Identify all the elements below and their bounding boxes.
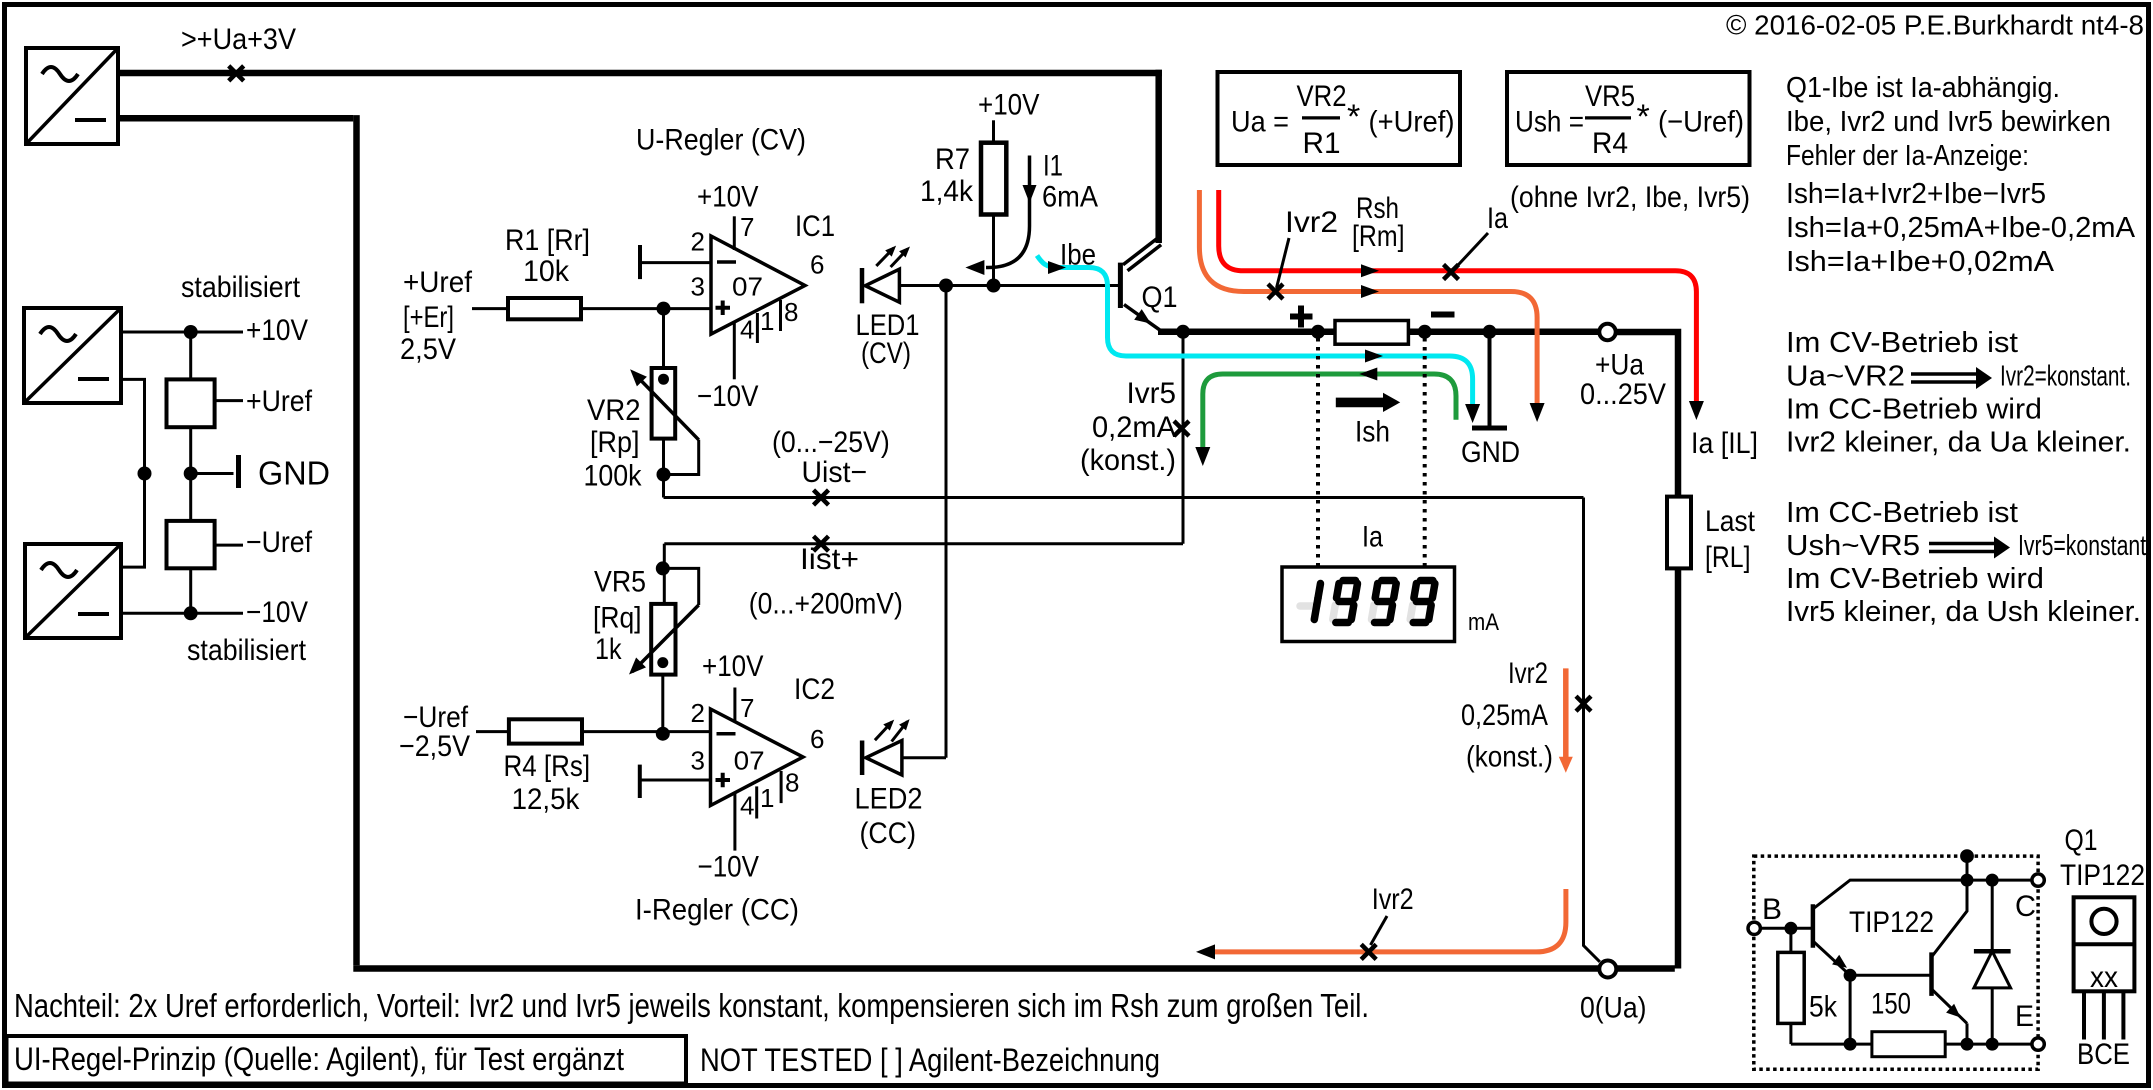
svg-text:(ohne Ivr2, Ibe, Ivr5): (ohne Ivr2, Ibe, Ivr5)	[1510, 181, 1750, 214]
svg-text:*: *	[1347, 98, 1360, 136]
svg-text:+10V: +10V	[246, 314, 308, 347]
svg-text:stabilisiert: stabilisiert	[187, 634, 307, 667]
svg-text:Nachteil: 2x Uref erforderlich: Nachteil: 2x Uref erforderlich, Vorteil:…	[14, 987, 1369, 1024]
svg-text:*: *	[1637, 98, 1650, 136]
svg-text:2: 2	[691, 698, 705, 728]
svg-text:[Rp]: [Rp]	[590, 426, 640, 459]
svg-text:Im CC-Betrieb wird: Im CC-Betrieb wird	[1786, 394, 2042, 426]
svg-text:Ia [IL]: Ia [IL]	[1691, 427, 1758, 460]
svg-text:R1: R1	[1303, 127, 1341, 160]
svg-text:10k: 10k	[523, 255, 570, 288]
svg-text:© 2016-02-05 P.E.Burkhardt nt4: © 2016-02-05 P.E.Burkhardt nt4-8	[1726, 10, 2144, 41]
svg-text:0...25V: 0...25V	[1580, 378, 1666, 411]
svg-text:−10V: −10V	[698, 850, 760, 883]
svg-text:Ish=Ia+Ibe+0,02mA: Ish=Ia+Ibe+0,02mA	[1786, 246, 2055, 278]
svg-text:GND: GND	[1461, 436, 1520, 469]
svg-text:+10V: +10V	[697, 180, 759, 213]
svg-text:I1: I1	[1043, 150, 1063, 183]
svg-text:+Ua: +Ua	[1595, 349, 1644, 382]
svg-text:2,5V: 2,5V	[400, 333, 456, 366]
svg-text:[+Er]: [+Er]	[403, 301, 454, 334]
svg-text:(CV): (CV)	[861, 337, 911, 370]
svg-text:BCE: BCE	[2077, 1038, 2130, 1071]
svg-text:VR2: VR2	[587, 394, 641, 427]
svg-text:VR5: VR5	[1585, 80, 1635, 113]
svg-text:Fehler der Ia-Anzeige:: Fehler der Ia-Anzeige:	[1786, 140, 2029, 172]
svg-text:Iist+: Iist+	[800, 543, 859, 576]
svg-text:Ish=Ia+Ivr2+Ibe−Ivr5: Ish=Ia+Ivr2+Ibe−Ivr5	[1786, 178, 2046, 210]
svg-text:Ivr5 kleiner, da Ush kleiner.: Ivr5 kleiner, da Ush kleiner.	[1786, 596, 2141, 628]
svg-text:Last: Last	[1705, 505, 1756, 538]
svg-text:(CC): (CC)	[860, 817, 917, 850]
svg-text:Ush~VR5: Ush~VR5	[1786, 530, 1920, 562]
svg-text:5k: 5k	[1809, 991, 1838, 1024]
svg-text:R4 [Rs]: R4 [Rs]	[504, 750, 591, 783]
svg-text:Ivr2 kleiner, da Ua kleiner.: Ivr2 kleiner, da Ua kleiner.	[1786, 427, 2131, 459]
svg-text:0(Ua): 0(Ua)	[1580, 992, 1647, 1025]
svg-text:−10V: −10V	[246, 596, 308, 629]
svg-text:Q1-Ibe ist Ia-abhängig.: Q1-Ibe ist Ia-abhängig.	[1786, 72, 2060, 104]
svg-text:+10V: +10V	[978, 89, 1040, 122]
svg-text:3: 3	[691, 746, 705, 776]
svg-text:150: 150	[1871, 988, 1911, 1021]
svg-text:Ish=Ia+0,25mA+Ibe-0,2mA: Ish=Ia+0,25mA+Ibe-0,2mA	[1786, 212, 2136, 244]
svg-text:(−Uref): (−Uref)	[1658, 106, 1744, 139]
svg-text:Q1: Q1	[2065, 824, 2098, 857]
svg-text:1: 1	[760, 306, 774, 336]
svg-text:R4: R4	[1592, 127, 1628, 160]
svg-text:Ibe: Ibe	[1060, 239, 1096, 272]
svg-text:100k: 100k	[584, 460, 643, 493]
svg-text:I-Regler (CC): I-Regler (CC)	[635, 894, 799, 927]
svg-text:LED2: LED2	[855, 783, 923, 816]
svg-text:1k: 1k	[595, 633, 622, 666]
svg-text:1,4k: 1,4k	[920, 175, 974, 208]
svg-text:U-Regler (CV): U-Regler (CV)	[636, 124, 806, 157]
svg-text:Ivr2: Ivr2	[1372, 883, 1414, 916]
svg-text:Im CV-Betrieb ist: Im CV-Betrieb ist	[1786, 327, 2018, 359]
svg-text:8: 8	[784, 297, 798, 327]
svg-text:TIP122: TIP122	[1849, 906, 1934, 939]
svg-text:0,25mA: 0,25mA	[1461, 699, 1548, 732]
svg-text:Ivr5: Ivr5	[1127, 377, 1177, 410]
svg-text:Ivr2=konstant.: Ivr2=konstant.	[2000, 361, 2131, 393]
svg-text:−Uref: −Uref	[246, 526, 313, 559]
svg-text:Ia: Ia	[1362, 521, 1383, 554]
svg-text:4: 4	[740, 791, 754, 821]
svg-text:Ish: Ish	[1355, 416, 1390, 449]
svg-text:Uist−: Uist−	[802, 456, 868, 489]
svg-text:B: B	[1762, 893, 1782, 926]
svg-text:IC2: IC2	[794, 673, 835, 706]
svg-text:VR5: VR5	[594, 566, 646, 599]
svg-text:3: 3	[691, 272, 705, 302]
svg-text:6mA: 6mA	[1042, 181, 1098, 214]
svg-text:8: 8	[785, 768, 799, 798]
svg-text:+Uref: +Uref	[403, 266, 473, 299]
svg-text:R7: R7	[935, 143, 970, 176]
svg-text:(konst.): (konst.)	[1466, 741, 1553, 774]
svg-text:1: 1	[760, 783, 774, 813]
svg-text:Ia: Ia	[1487, 202, 1508, 235]
svg-text:(konst.): (konst.)	[1080, 444, 1176, 477]
svg-text:C: C	[2015, 890, 2036, 923]
svg-text:Ibe, Ivr2 und Ivr5 bewirken: Ibe, Ivr2 und Ivr5 bewirken	[1786, 106, 2111, 138]
svg-text:GND: GND	[258, 455, 330, 492]
svg-text:4: 4	[740, 315, 754, 345]
svg-text:Ivr2: Ivr2	[1285, 206, 1338, 239]
svg-text:Ivr2: Ivr2	[1508, 657, 1548, 690]
svg-text:xx: xx	[2090, 961, 2118, 994]
svg-text:TIP122: TIP122	[2060, 859, 2145, 892]
svg-text:2: 2	[691, 226, 705, 256]
svg-text:Q1: Q1	[1142, 281, 1178, 314]
svg-text:stabilisiert: stabilisiert	[181, 271, 301, 304]
svg-text:7: 7	[740, 693, 754, 723]
svg-text:7: 7	[740, 212, 754, 242]
svg-text:(0...+200mV): (0...+200mV)	[749, 588, 903, 621]
svg-text:R1 [Rr]: R1 [Rr]	[505, 224, 590, 257]
svg-text:IC1: IC1	[795, 210, 835, 243]
svg-text:Ua~VR2: Ua~VR2	[1786, 361, 1905, 393]
svg-text:+10V: +10V	[702, 650, 764, 683]
svg-text:(0...−25V): (0...−25V)	[772, 426, 890, 459]
svg-text:VR2: VR2	[1297, 80, 1347, 113]
svg-text:6: 6	[810, 250, 824, 280]
svg-text:E: E	[2015, 1000, 2034, 1033]
svg-text:07: 07	[732, 272, 763, 302]
svg-text:12,5k: 12,5k	[512, 783, 581, 816]
svg-text:[Rq]: [Rq]	[593, 602, 642, 635]
svg-text:07: 07	[734, 746, 765, 776]
svg-text:UI-Regel-Prinzip (Quelle: Agil: UI-Regel-Prinzip (Quelle: Agilent), für …	[14, 1041, 624, 1077]
svg-text:mA: mA	[1468, 609, 1499, 636]
svg-text:6: 6	[810, 724, 824, 754]
svg-text:[Rm]: [Rm]	[1352, 220, 1405, 253]
svg-text:−2,5V: −2,5V	[399, 730, 470, 763]
svg-text:Ivr5=konstant.: Ivr5=konstant.	[2018, 530, 2152, 562]
svg-text:Ua =: Ua =	[1231, 106, 1289, 139]
svg-text:Im CC-Betrieb ist: Im CC-Betrieb ist	[1786, 497, 2018, 529]
svg-text:0,2mA: 0,2mA	[1092, 411, 1176, 444]
svg-text:(+Uref): (+Uref)	[1369, 106, 1455, 139]
svg-text:Im CV-Betrieb wird: Im CV-Betrieb wird	[1786, 563, 2044, 595]
svg-text:Ush =: Ush =	[1515, 106, 1584, 139]
svg-text:[RL]: [RL]	[1705, 541, 1751, 574]
svg-text:>+Ua+3V: >+Ua+3V	[181, 23, 296, 56]
svg-text:NOT TESTED [ ] Agilent-Beze: NOT TESTED [ ] Agilent-Bezeichnung	[700, 1042, 1160, 1078]
svg-text:−10V: −10V	[697, 380, 759, 413]
svg-text:+Uref: +Uref	[246, 385, 313, 418]
